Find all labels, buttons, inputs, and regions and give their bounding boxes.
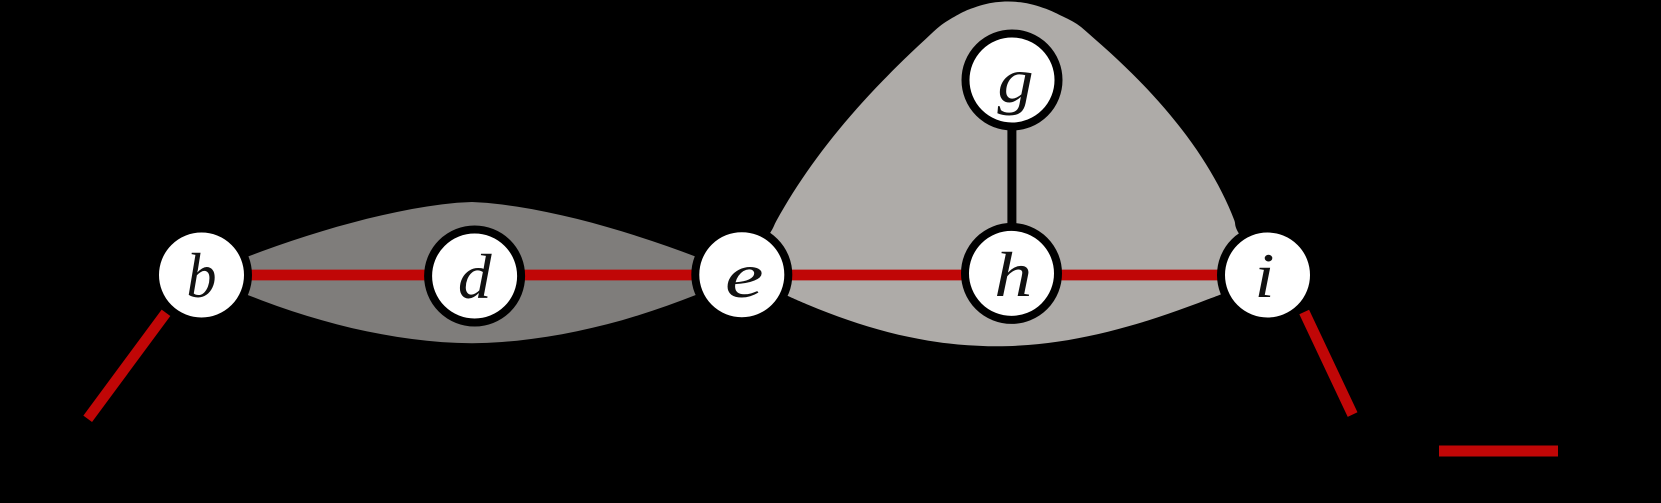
node d [428, 230, 521, 323]
svg-text:h: h [994, 239, 1032, 310]
svg-text:e: e [725, 240, 764, 311]
red edge from i to off-canvas lower-right [1304, 312, 1352, 415]
node g [966, 34, 1059, 127]
isolated red legend segment bottom right [1439, 446, 1558, 457]
node e [695, 228, 788, 321]
hyperedge blob {e,g,h,i} (light gray) [742, 2, 1268, 347]
node i [1221, 229, 1314, 322]
black edge g-h [1007, 80, 1016, 273]
red path edge b-d-e-h-i [201, 270, 1267, 281]
svg-text:d: d [458, 241, 493, 312]
node b [155, 229, 248, 322]
hyperedge lens {b,d,e} (dark gray) [202, 202, 742, 343]
svg-text:g: g [997, 45, 1033, 116]
node h [965, 227, 1058, 320]
red edge from b to off-canvas lower-left [88, 313, 166, 419]
svg-text:i: i [1255, 240, 1275, 311]
svg-text:b: b [187, 240, 217, 311]
